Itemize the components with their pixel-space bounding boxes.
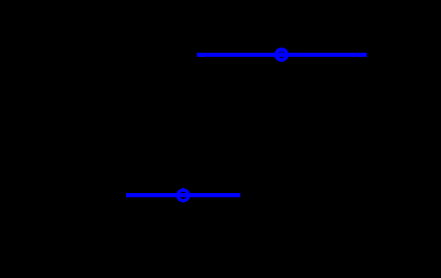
node marker 1 (open circle on top segment) — [276, 49, 287, 60]
wire segment 1 (top horizontal line) — [197, 53, 367, 57]
node marker 2 (open circle on bottom segment) — [178, 190, 189, 201]
tick on node marker 2 — [182, 188, 184, 190]
wire segment 2 (bottom horizontal line) — [126, 193, 240, 197]
tick on node marker 1 — [281, 51, 282, 53]
